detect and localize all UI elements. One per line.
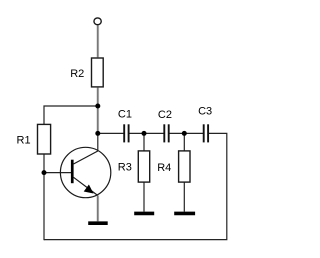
capacitor C1 — [124, 124, 128, 142]
terminal (input port) — [94, 18, 101, 25]
svg-text:R3: R3 — [118, 162, 132, 174]
resistor R1 — [38, 124, 51, 154]
wire: R3 top stub — [143, 133, 145, 151]
node: R4 junction — [182, 131, 187, 136]
resistor R3 — [138, 151, 149, 182]
ground (R4) — [174, 212, 195, 216]
node: collector/C1 junction — [95, 131, 100, 136]
svg-text:R1: R1 — [17, 135, 31, 147]
wire: C1 junction down to transistor collector — [97, 133, 99, 151]
transistor Q1 — [60, 147, 110, 197]
wire: branch to R1 top — [44, 106, 98, 124]
resistor R4 — [179, 151, 190, 182]
wire: R4 top stub — [183, 133, 185, 151]
capacitor C2 — [164, 124, 168, 142]
wire: terminal to R2 top — [97, 25, 99, 58]
wire: main vertical R2 bottom to C1 junction — [97, 87, 99, 133]
svg-text:C2: C2 — [158, 109, 172, 121]
wire: left vertical R1 bottom to bottom rail — [43, 155, 45, 241]
capacitor C3 — [204, 124, 208, 142]
svg-text:C3: C3 — [198, 106, 212, 118]
node: R1/R2 junction — [95, 104, 100, 109]
wire: collector to C1 — [98, 132, 124, 134]
wire: base wire — [44, 172, 71, 174]
wire: emitter to ground — [97, 195, 99, 221]
wire: C3 output down to bottom rail — [44, 133, 227, 239]
node: base junction — [42, 170, 47, 175]
svg-text:C1: C1 — [118, 108, 132, 120]
svg-text:R2: R2 — [70, 68, 84, 80]
resistor R2 — [92, 58, 104, 87]
ground (emitter) — [88, 221, 108, 225]
ground (R3) — [134, 212, 154, 216]
node: R3 junction — [142, 131, 147, 136]
svg-text:R4: R4 — [157, 162, 171, 174]
wire: R4 bottom stub — [183, 182, 185, 211]
wire: C2 to C3 — [169, 132, 204, 134]
wire: C1 to C2 — [129, 132, 165, 134]
wire: R3 bottom stub — [143, 182, 145, 211]
